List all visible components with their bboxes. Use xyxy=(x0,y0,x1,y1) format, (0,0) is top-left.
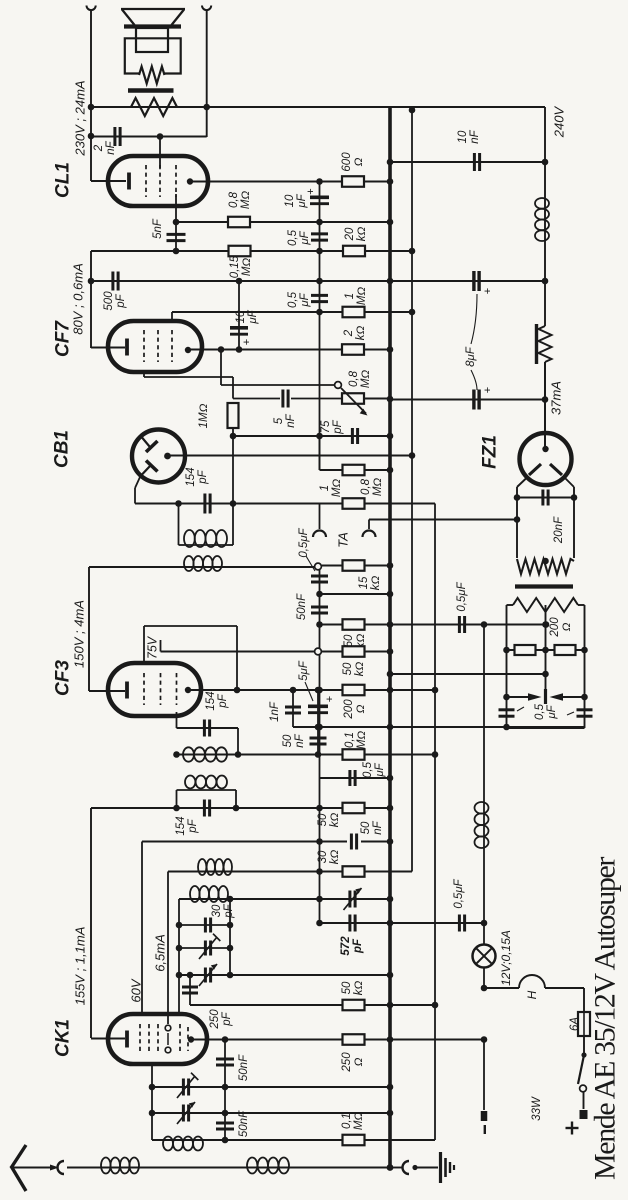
svg-text:MΩ: MΩ xyxy=(240,191,252,210)
resistor 600 Ohm xyxy=(342,176,364,187)
wire: 240V feed corner xyxy=(544,107,546,162)
wire: CK1 supply rail 155V xyxy=(90,808,92,1038)
resistor 15 kOhm xyxy=(343,560,365,571)
vibrator left rail xyxy=(506,605,508,728)
svg-text:240V: 240V xyxy=(552,105,567,138)
wire: pot tap branch xyxy=(220,350,222,386)
svg-text:30: 30 xyxy=(317,850,329,863)
wire: CB1 lower lead xyxy=(135,477,140,488)
wire: minus rail xyxy=(483,1040,485,1111)
tube FZ1 cathode dot xyxy=(542,446,548,452)
node 200R line on rail 435 xyxy=(432,687,439,694)
wire: CF3 supply rail 150V xyxy=(88,567,90,691)
speaker terminal hook right xyxy=(202,6,211,11)
wire: 0.5uF line 778 xyxy=(320,777,391,779)
node 1M bottom xyxy=(230,433,237,440)
svg-text:50: 50 xyxy=(317,813,329,826)
svg-text:75V: 75V xyxy=(145,635,159,659)
node anode/5uF xyxy=(315,687,322,694)
svg-text:20nF: 20nF xyxy=(553,516,565,544)
tube CL1 envelope xyxy=(108,156,208,206)
capacitor 2nF line xyxy=(91,136,207,138)
node 50k on bus xyxy=(387,621,394,628)
ground socket xyxy=(390,1167,403,1169)
capacitor 10nF xyxy=(473,153,476,171)
capacitor 50nF (TA chain) xyxy=(311,606,328,609)
node ladder/0.15M line xyxy=(316,248,323,255)
tube CF3 envelope xyxy=(108,663,201,716)
wire: 808 line from CK1 rail to bus xyxy=(91,807,390,809)
label CB1 xyxy=(52,430,73,468)
label 12V;0.15A xyxy=(499,930,513,986)
tube CL1 grids xyxy=(145,165,147,197)
svg-text:FZ1: FZ1 xyxy=(480,435,501,469)
svg-text:pF: pF xyxy=(221,1011,233,1026)
svg-text:MΩ: MΩ xyxy=(353,1112,365,1131)
node tank on bus xyxy=(387,896,394,903)
wire: IF1 154pF line xyxy=(177,727,239,729)
label 154pF CB1 xyxy=(185,467,209,486)
label 50 kOhm second xyxy=(342,662,366,677)
wire: heater line from TA jack xyxy=(369,519,517,521)
tube CL1 grid lead down xyxy=(175,194,177,222)
tube CF7 envelope xyxy=(108,321,202,372)
svg-text:500: 500 xyxy=(103,291,115,311)
node 923/ladder xyxy=(316,920,323,927)
capacitor 10uF electrolytic (CL1) xyxy=(310,196,329,200)
node 727/5uF xyxy=(315,724,322,731)
IF transformer 2 secondary circuit xyxy=(178,504,180,546)
label + 8uF second xyxy=(482,387,494,393)
label CF7 xyxy=(53,320,74,357)
capacitor 0.5uF (dial lamp) xyxy=(320,922,485,924)
svg-text:μF: μF xyxy=(374,762,386,777)
capacitor 5nF xyxy=(167,233,186,236)
node tank/ladder xyxy=(316,896,323,903)
tube CB1 envelope (diode) xyxy=(132,430,185,483)
svg-text:8μF: 8μF xyxy=(465,346,477,367)
svg-text:kΩ: kΩ xyxy=(355,326,367,341)
svg-text:0,5: 0,5 xyxy=(287,291,299,308)
wire: 0.15M line xyxy=(91,250,412,252)
svg-text:1: 1 xyxy=(344,293,356,299)
wire: TA chain vertical xyxy=(319,570,321,648)
wire: screen loop over tube xyxy=(144,625,237,627)
node anode/1nF xyxy=(290,687,297,694)
node 808 on bus xyxy=(387,805,394,812)
svg-text:CF3: CF3 xyxy=(53,660,74,696)
label 1 MOhm detector xyxy=(319,479,343,498)
wire: CK1 lower lead xyxy=(151,1064,153,1140)
label 5nF xyxy=(152,218,164,239)
capacitor 20nF xyxy=(517,497,574,499)
label 15 kOhm xyxy=(358,576,382,591)
label 250 Ohm xyxy=(341,1052,365,1073)
node avc on rail 435 xyxy=(432,751,439,758)
svg-text:pF: pF xyxy=(332,419,344,434)
node tank/padder right rail xyxy=(227,896,234,903)
node 50k2 on bus xyxy=(387,648,394,655)
label 155V ; 1.1mA xyxy=(73,927,88,1006)
svg-text:10: 10 xyxy=(284,194,296,207)
label 20 kOhm xyxy=(344,227,368,242)
capacitor 0.5uF (first) xyxy=(311,232,328,235)
capacitor 8uF electrolytic (first) xyxy=(472,271,475,291)
svg-text:50nF: 50nF xyxy=(238,1110,250,1137)
resistor 0.8 MOhm (CL1 grid) xyxy=(228,217,250,228)
capacitor 5nF (coupling to pot) xyxy=(281,390,284,408)
svg-text:12V;0,15A: 12V;0,15A xyxy=(499,930,513,986)
svg-text:+: + xyxy=(324,696,336,702)
capacitor 572pF xyxy=(348,915,351,932)
node ladder/screen line xyxy=(316,309,323,316)
svg-text:230V ; 24mA: 230V ; 24mA xyxy=(73,80,88,156)
tube CF3 screen lead 75V xyxy=(143,626,145,665)
label 500pF xyxy=(103,291,127,311)
node 10nF on bus xyxy=(387,159,394,166)
TA jack 1 xyxy=(319,504,321,530)
svg-text:nF: nF xyxy=(372,820,384,834)
label 0.5uF second xyxy=(287,291,311,308)
label 80V ; 0.6mA xyxy=(71,263,86,335)
label 5uF with leader and + xyxy=(298,660,310,681)
svg-text:250: 250 xyxy=(209,1009,221,1030)
node ground bus bottom xyxy=(387,1164,394,1171)
label 20nF xyxy=(553,516,565,544)
wire: 600 Ohm to bus xyxy=(364,181,390,183)
svg-text:5: 5 xyxy=(273,417,285,424)
coil antenna 1 xyxy=(101,1158,111,1174)
capacitor 1nF xyxy=(292,690,294,727)
wire: CF3 grid line xyxy=(161,651,315,653)
resistor 200 Ohm left xyxy=(507,649,546,651)
resistor 50 kOhm xyxy=(343,619,365,630)
terminal circle grid CF3 line xyxy=(315,648,322,655)
capacitor 5uF electrolytic xyxy=(317,690,319,727)
wire: 50k second to bus xyxy=(322,651,390,653)
tube CF7 cathode xyxy=(125,339,129,356)
wire: top supply line from speaker to 240V corner xyxy=(91,106,545,108)
svg-text:200: 200 xyxy=(549,617,561,638)
svg-text:200: 200 xyxy=(343,699,355,720)
node 500pF/bus xyxy=(387,278,394,285)
wire: ladder segment 651-778 xyxy=(319,655,321,778)
wire: ladder segment 778-923 xyxy=(319,778,321,923)
svg-text:Ω: Ω xyxy=(561,622,573,631)
wire: CL1 anode line to 600 Ohm xyxy=(190,181,342,183)
node 1005 on rail 435 xyxy=(432,1002,439,1009)
wire: padder right rail xyxy=(229,899,231,975)
svg-text:15: 15 xyxy=(358,576,370,589)
node: anode line / 10uF branch xyxy=(316,178,323,185)
tube CF7 screen lead up xyxy=(171,312,173,322)
wire: CK1 anode line xyxy=(191,1039,343,1041)
node 10nF at 240V rail xyxy=(542,159,549,166)
coil oscillator xyxy=(152,1139,225,1141)
capacitor 154pF (IF3) xyxy=(203,800,206,817)
tube CF7 grids xyxy=(143,330,145,362)
node 841 on bus xyxy=(387,838,394,845)
capacitor 0.5uF (778) xyxy=(348,770,351,786)
tube CL1 anode xyxy=(187,178,193,184)
svg-text:5μF: 5μF xyxy=(298,660,310,681)
wire: switch to + terminal xyxy=(583,1092,585,1109)
wire: rail to dropper resistor xyxy=(544,281,546,326)
wire: AVC line 754 to rail 435 xyxy=(177,754,436,756)
wire: CF7 screen line to 1 MOhm xyxy=(172,311,412,313)
wire 2k to bus xyxy=(364,349,390,351)
resistor 0.1 MOhm (osc grid) xyxy=(343,1135,365,1146)
label 37mA xyxy=(549,381,564,415)
wire: FZ1 anode lead xyxy=(544,400,546,450)
node 778 on bus xyxy=(387,775,394,782)
label 50nF TA xyxy=(296,593,308,620)
vibrator contact arrows xyxy=(507,696,529,698)
svg-text:50: 50 xyxy=(360,821,372,834)
coil smoothing choke (lamp rail) xyxy=(475,802,489,814)
node 808/ladder xyxy=(316,805,323,812)
label 0.5uF dial xyxy=(453,878,465,908)
svg-text:MΩ: MΩ xyxy=(356,731,368,750)
coil IF1 xyxy=(183,747,194,761)
node 923 on bus xyxy=(387,920,394,927)
svg-text:CF7: CF7 xyxy=(53,320,74,357)
svg-text:50: 50 xyxy=(282,734,294,747)
capacitor trimmer 1087 (T) xyxy=(182,1079,185,1096)
svg-text:30: 30 xyxy=(211,904,223,917)
resistor 20 kOhm xyxy=(343,246,365,257)
wire: 0.8M grid line xyxy=(176,221,390,223)
capacitor 50nF (CF3 cathode) xyxy=(317,727,319,755)
svg-text:μF: μF xyxy=(299,292,311,307)
svg-text:0,5: 0,5 xyxy=(534,703,546,720)
terminal circle of potentiometer xyxy=(335,382,342,389)
label 0.5uF TA with leader xyxy=(298,527,310,557)
svg-text:pF: pF xyxy=(223,903,235,918)
svg-text:0,1: 0,1 xyxy=(341,1113,353,1129)
svg-text:+: + xyxy=(241,339,253,345)
resistor 50 kOhm (second) xyxy=(343,646,365,657)
wire: 1005 line to rail 435 xyxy=(190,1004,435,1006)
svg-text:kΩ: kΩ xyxy=(356,227,368,242)
label 50nF 60V xyxy=(360,820,384,834)
node 15k on bus xyxy=(387,562,394,569)
tube CF3 anode xyxy=(185,687,191,693)
node CB1 line on rail 412 xyxy=(409,452,416,459)
node ladder 690 xyxy=(316,687,323,694)
coil antenna 2 xyxy=(247,1158,257,1174)
wire: left speaker wire down to CL1 cathode lead xyxy=(90,10,92,181)
svg-text:0,15: 0,15 xyxy=(229,255,241,278)
node 0.15M line on rail 412 xyxy=(409,248,416,255)
node 75pF on bus xyxy=(387,433,394,440)
antenna symbol xyxy=(11,1145,26,1168)
svg-text:nF: nF xyxy=(469,129,481,143)
node avc/ladder xyxy=(315,751,322,758)
label 60V xyxy=(129,978,144,1002)
svg-text:0,1: 0,1 xyxy=(344,732,356,748)
node 1087 xyxy=(222,1084,229,1091)
wire: padder left rail xyxy=(178,899,180,1015)
switch lever xyxy=(578,1055,584,1084)
wire: pot to bus joining 8uF line xyxy=(364,398,390,400)
wire: ladder corner to 0.8M AVC resistor xyxy=(319,436,321,470)
node 1087 on bus xyxy=(387,1084,394,1091)
label 10uF + (CF7) xyxy=(235,309,259,324)
node 808/IF3 left xyxy=(173,805,180,812)
node 727 on vibrator left rail xyxy=(503,724,510,731)
resistor 0.15 MOhm xyxy=(229,246,251,257)
label 6.5mA xyxy=(153,934,168,972)
title Mende AE 35/12V Autosuper xyxy=(589,857,622,1180)
resistor dropper with bar (vertical zigzag) xyxy=(539,326,552,362)
transformer heater winding zigzag xyxy=(517,559,574,574)
capacitor 50nF (osc 1) xyxy=(224,1040,226,1141)
wire: 10nF line xyxy=(390,161,545,163)
wire: trimmer line 1113 xyxy=(152,1112,390,1114)
capacitor 10uF electrolytic (CF7 cathode) xyxy=(238,281,240,348)
label 33W xyxy=(531,1096,543,1121)
wire: 0.1M line 1140 xyxy=(225,1139,435,1141)
wire: antenna lead xyxy=(13,1167,52,1169)
svg-text:pF: pF xyxy=(115,293,127,308)
node 975 on bus xyxy=(387,972,394,979)
label 250pF xyxy=(209,1009,233,1030)
node 1113 on bus xyxy=(387,1110,394,1117)
label 30 kOhm xyxy=(317,850,341,865)
label 10uF + xyxy=(284,193,308,208)
label 50nF CF3 xyxy=(282,733,306,747)
svg-text:pF: pF xyxy=(187,818,199,833)
node 923 at lamp rail xyxy=(481,920,488,927)
label 0.5uF 778 xyxy=(362,761,386,778)
wire: CB1 output line to rail 412 xyxy=(168,455,413,457)
svg-text:0,8: 0,8 xyxy=(228,191,240,208)
antenna plug xyxy=(50,1165,59,1171)
wire: CF7 grid branch xyxy=(144,376,233,378)
capacitor 8uF electrolytic (second) xyxy=(472,390,475,410)
svg-text:60V: 60V xyxy=(129,978,144,1002)
wire: right speaker wire down to 2nF line xyxy=(206,10,208,137)
svg-text:MΩ: MΩ xyxy=(372,478,384,497)
vibrator bottom line xyxy=(507,727,585,729)
wire: 6.5mA line with oscillator coupling coil xyxy=(167,872,169,1025)
node 500pF/10uF branch xyxy=(236,278,243,285)
svg-text:pF: pF xyxy=(217,693,229,708)
svg-text:50: 50 xyxy=(342,662,354,675)
tube CF3 grids xyxy=(143,673,145,705)
capacitor 50nF (osc 2) xyxy=(216,1122,234,1125)
TA jack 2 xyxy=(368,520,370,530)
svg-text:0,5μF: 0,5μF xyxy=(298,527,310,557)
battery - terminal xyxy=(481,1111,488,1121)
label FZ1 xyxy=(480,435,501,469)
wire: 500pF screen feed line xyxy=(91,280,545,282)
node 37mA xyxy=(542,396,549,403)
svg-text:kΩ: kΩ xyxy=(353,981,365,996)
label 1 MOhm xyxy=(344,287,368,306)
capacitor 2nF xyxy=(113,127,116,146)
label H xyxy=(525,990,539,999)
label + xyxy=(571,1122,573,1135)
svg-text:600: 600 xyxy=(341,152,353,172)
node 5nF top xyxy=(173,219,180,226)
label 75V xyxy=(145,635,159,659)
svg-text:154: 154 xyxy=(175,816,187,835)
label 1 MOhm grid leak xyxy=(198,403,210,428)
capacitor 0.5uF buffer right xyxy=(577,708,593,711)
node 727 on bus xyxy=(387,724,394,731)
capacitor 0.5uF (second) xyxy=(311,294,328,297)
label + for 8uF first xyxy=(482,288,494,294)
wire: 50k AGC line across to vibrator tap xyxy=(320,624,547,626)
capacitor 30pF fixed xyxy=(179,924,230,926)
transformer core bar xyxy=(515,584,573,588)
tube CF3 grid3 lead up xyxy=(160,640,162,652)
node 808/IF3 right xyxy=(233,805,240,812)
svg-text:MΩ: MΩ xyxy=(360,370,372,389)
svg-text:1: 1 xyxy=(319,485,331,491)
label CL1 xyxy=(53,162,74,198)
label 50 kOhm 1005 xyxy=(341,981,365,996)
svg-text:Ω: Ω xyxy=(353,157,365,166)
label 150V ; 4mA xyxy=(72,600,87,668)
node 0.8M line on bus xyxy=(387,219,394,226)
tube CF7 grid lead down xyxy=(143,370,145,377)
resistor 50 kOhm (1005) xyxy=(343,1000,365,1011)
resistor 2 kOhm xyxy=(342,344,364,355)
resistor 30 kOhm xyxy=(343,866,365,877)
node TA chain mid xyxy=(316,591,323,598)
tube CB1 diode plates xyxy=(142,438,150,447)
node ladder/500pF line xyxy=(316,278,323,285)
node lamp bottom xyxy=(481,985,488,992)
label 10nF xyxy=(457,129,481,143)
label 240V xyxy=(552,105,567,138)
tube CK1 envelope xyxy=(108,1014,207,1064)
node: junction left wire / field line xyxy=(88,104,95,111)
svg-text:+: + xyxy=(305,188,317,194)
node TA chain low xyxy=(316,621,323,628)
node screen loop on anode line xyxy=(234,687,241,694)
svg-text:2: 2 xyxy=(343,329,355,337)
potentiometer 0.8 MOhm volume xyxy=(342,393,364,404)
node 10uF on anode line xyxy=(236,346,243,353)
label TA xyxy=(336,532,351,548)
label 30pF xyxy=(211,903,235,918)
svg-text:1MΩ: 1MΩ xyxy=(198,403,210,428)
wire: FZ1 right lead xyxy=(565,478,575,488)
svg-text:154: 154 xyxy=(185,467,197,486)
wire: 240V rail segment xyxy=(544,162,546,198)
tube CK1 anode xyxy=(188,1036,194,1042)
wire: CB1 vertical link to 154pF line xyxy=(232,436,234,504)
label 0.8 MOhm AVC xyxy=(360,478,384,497)
svg-text:MΩ: MΩ xyxy=(241,258,253,277)
node 0.5uF / coil rail xyxy=(481,621,488,628)
svg-text:150V ; 4mA: 150V ; 4mA xyxy=(72,600,87,668)
label 75pF xyxy=(320,419,344,434)
tube CF3 cathode lead xyxy=(89,690,125,692)
wire: fuse to switch xyxy=(583,1036,585,1055)
label 200 Ohm CF3 xyxy=(343,699,367,720)
wire: screen lead into CL1 xyxy=(159,137,161,169)
svg-text:CL1: CL1 xyxy=(53,162,74,198)
label 200 Ohm vibrator xyxy=(549,617,573,638)
svg-text:0,5μF: 0,5μF xyxy=(456,581,468,611)
svg-text:10: 10 xyxy=(235,310,247,323)
svg-text:kΩ: kΩ xyxy=(329,850,341,865)
